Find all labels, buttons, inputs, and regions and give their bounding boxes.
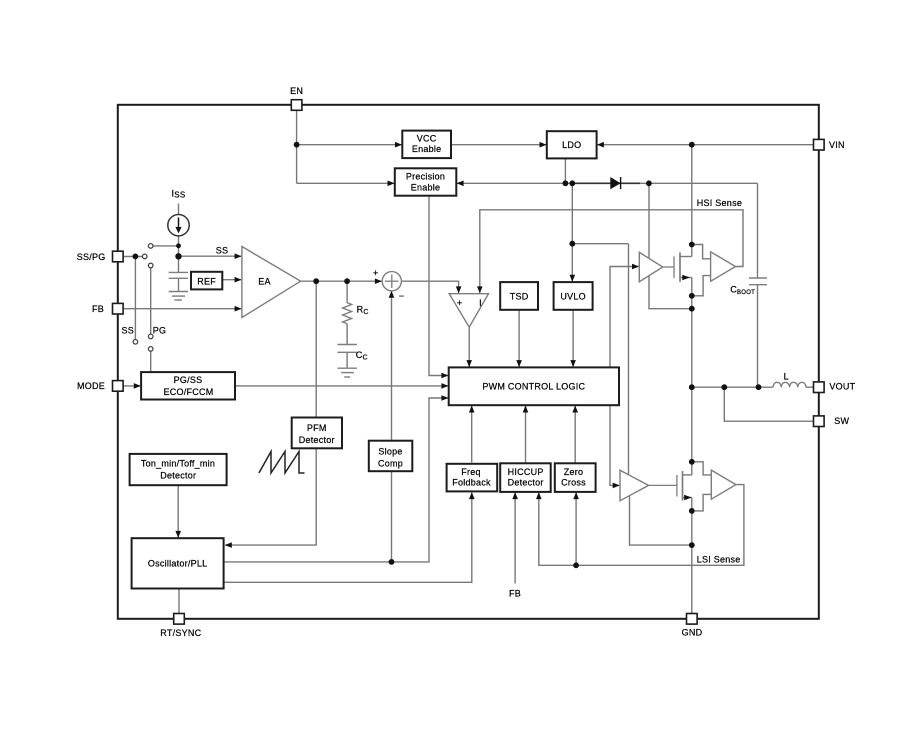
svg-text:−: − xyxy=(399,291,405,301)
svg-text:CBOOT: CBOOT xyxy=(730,285,755,297)
svg-text:UVLO: UVLO xyxy=(560,292,586,302)
svg-text:ISS: ISS xyxy=(172,189,186,200)
svg-text:RT/SYNC: RT/SYNC xyxy=(160,628,201,638)
svg-text:Foldback: Foldback xyxy=(452,478,491,488)
svg-text:+: + xyxy=(373,268,379,278)
svg-text:Enable: Enable xyxy=(411,183,441,193)
svg-text:SS/PG: SS/PG xyxy=(77,252,106,262)
svg-text:Detector: Detector xyxy=(160,470,196,480)
svg-text:Ton_min/Toff_min: Ton_min/Toff_min xyxy=(141,459,215,469)
svg-text:Cross: Cross xyxy=(561,478,586,488)
svg-text:I: I xyxy=(479,298,482,308)
svg-text:+: + xyxy=(457,298,463,308)
svg-text:PWM CONTROL LOGIC: PWM CONTROL LOGIC xyxy=(482,381,585,391)
svg-text:VIN: VIN xyxy=(829,140,845,150)
svg-text:LSI Sense: LSI Sense xyxy=(697,555,741,565)
svg-text:CC: CC xyxy=(356,350,368,362)
svg-text:HSI Sense: HSI Sense xyxy=(697,198,742,208)
svg-text:Comp: Comp xyxy=(378,459,403,469)
svg-text:PG: PG xyxy=(153,326,167,336)
svg-text:Detector: Detector xyxy=(508,478,544,488)
svg-text:HICCUP: HICCUP xyxy=(508,467,544,477)
svg-text:TSD: TSD xyxy=(510,292,529,302)
svg-text:Enable: Enable xyxy=(412,144,442,154)
svg-text:Slope: Slope xyxy=(378,447,402,457)
svg-text:ECO/FCCM: ECO/FCCM xyxy=(164,387,214,397)
svg-text:Freq: Freq xyxy=(461,467,481,477)
svg-text:GND: GND xyxy=(682,628,703,638)
svg-text:Zero: Zero xyxy=(564,467,584,477)
svg-text:FB: FB xyxy=(509,589,521,599)
svg-text:SW: SW xyxy=(834,416,849,426)
svg-text:Precision: Precision xyxy=(406,172,445,182)
svg-text:VOUT: VOUT xyxy=(829,381,855,391)
svg-text:Oscillator/PLL: Oscillator/PLL xyxy=(148,559,208,569)
svg-text:SS: SS xyxy=(121,326,134,336)
svg-text:VCC: VCC xyxy=(417,133,437,143)
svg-text:PG/SS: PG/SS xyxy=(174,375,203,385)
svg-text:PFM: PFM xyxy=(307,423,327,433)
svg-text:EA: EA xyxy=(258,277,271,287)
svg-text:Detector: Detector xyxy=(299,435,335,445)
svg-text:RC: RC xyxy=(357,305,369,317)
svg-text:L: L xyxy=(784,372,789,382)
svg-text:LDO: LDO xyxy=(562,140,581,150)
svg-text:SS: SS xyxy=(216,246,229,256)
svg-text:REF: REF xyxy=(197,277,216,287)
svg-text:EN: EN xyxy=(290,86,303,96)
svg-text:FB: FB xyxy=(92,304,104,314)
svg-text:MODE: MODE xyxy=(77,381,105,391)
